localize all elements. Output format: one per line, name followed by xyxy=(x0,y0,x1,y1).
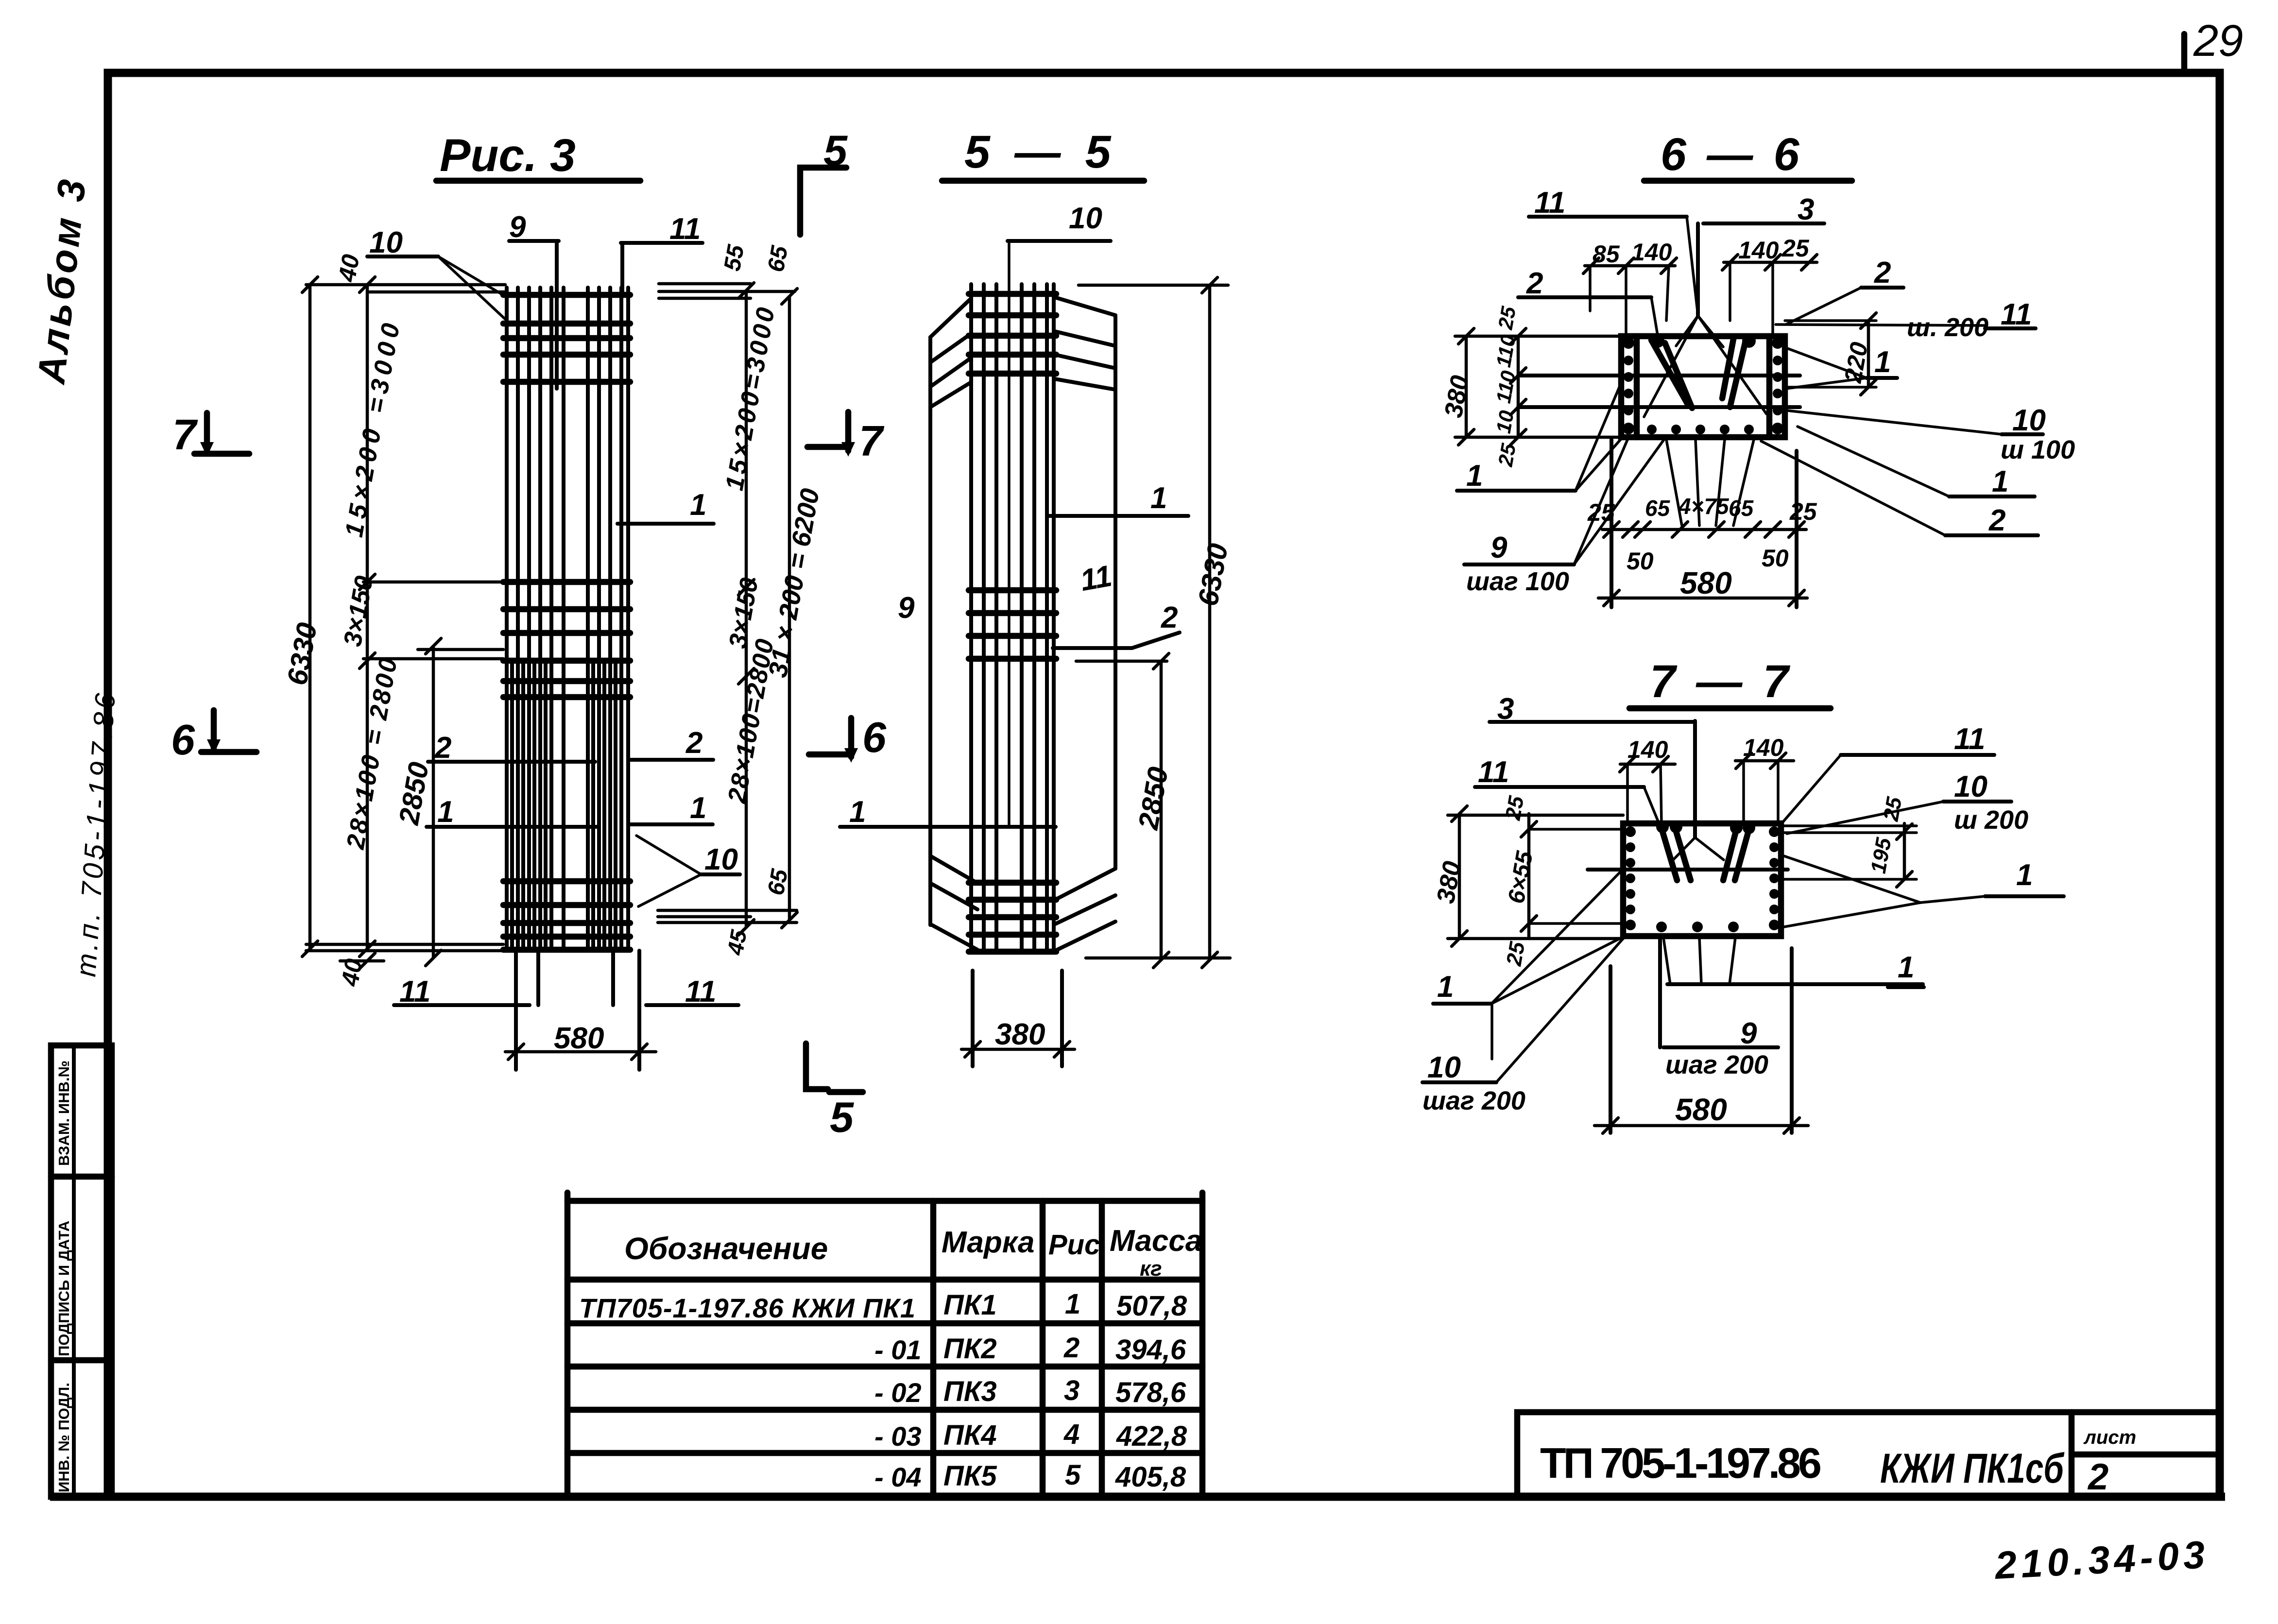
svg-text:ТП705-1-197.86 КЖИ ПК1: ТП705-1-197.86 КЖИ ПК1 xyxy=(579,1293,915,1323)
bent bar pairs xyxy=(1661,825,1750,880)
svg-text:9: 9 xyxy=(898,591,915,625)
svg-text:6 — 6: 6 — 6 xyxy=(1661,129,1803,180)
svg-text:ВЗАМ. ИНВ.№: ВЗАМ. ИНВ.№ xyxy=(55,1060,72,1166)
svg-text:10: 10 xyxy=(1427,1051,1461,1084)
left dim line 15x200/3x150/28x100 xyxy=(366,285,369,949)
cage ties top group xyxy=(969,294,1056,374)
svg-text:25: 25 xyxy=(1502,940,1529,968)
right dim 2850 xyxy=(1076,660,1167,663)
svg-text:7 — 7: 7 — 7 xyxy=(1650,656,1792,707)
rebar dots bottom row xyxy=(1647,425,1754,434)
central strand 10 leader through cage xyxy=(1008,241,1011,826)
svg-text:1: 1 xyxy=(690,791,706,825)
svg-text:шаг 200: шаг 200 xyxy=(1665,1050,1768,1079)
cage vertical bars xyxy=(971,284,1054,952)
svg-text:ИНВ. № ПОДЛ.: ИНВ. № ПОДЛ. xyxy=(55,1383,72,1492)
svg-text:405,8: 405,8 xyxy=(1115,1461,1186,1493)
svg-text:Рис. 3: Рис. 3 xyxy=(440,130,576,181)
svg-text:1: 1 xyxy=(2016,858,2033,892)
svg-text:2: 2 xyxy=(1988,504,2005,537)
svg-text:1: 1 xyxy=(1065,1288,1080,1320)
rebar dots bottom row xyxy=(1656,922,1739,932)
splayed strands top-right xyxy=(1055,297,1115,869)
svg-text:ПК2: ПК2 xyxy=(943,1333,997,1365)
svg-text:1: 1 xyxy=(1437,970,1454,1004)
svg-text:4: 4 xyxy=(1063,1419,1079,1450)
bottom dim row 25,65,4x75,65,25 xyxy=(1610,440,1613,607)
svg-text:10: 10 xyxy=(369,226,403,259)
cage lap-splice bars in lower zone xyxy=(512,661,616,950)
svg-text:580: 580 xyxy=(1680,565,1732,600)
svg-text:40: 40 xyxy=(333,252,365,284)
svg-text:ПК5: ПК5 xyxy=(943,1460,997,1492)
left stirrup rail xyxy=(1634,336,1640,437)
corner blobs xyxy=(1651,334,1756,348)
svg-text:2: 2 xyxy=(2087,1456,2108,1498)
svg-text:1: 1 xyxy=(1898,951,1914,984)
svg-text:578,6: 578,6 xyxy=(1115,1377,1186,1408)
svg-text:140: 140 xyxy=(1631,239,1672,266)
rebar dots left xyxy=(1623,337,1634,434)
svg-text:2: 2 xyxy=(1526,267,1543,300)
svg-text:2: 2 xyxy=(1161,601,1178,634)
svg-text:380: 380 xyxy=(995,1018,1045,1051)
svg-text:11: 11 xyxy=(669,212,701,246)
right dim line 31x200=6200 xyxy=(788,296,791,920)
svg-text:1: 1 xyxy=(690,488,706,522)
section marker 5 bottom xyxy=(806,1043,828,1089)
section body rect xyxy=(1621,336,1785,437)
below-section leaders to label 1 xyxy=(1663,938,1735,984)
leader 3 vertical and peak xyxy=(1693,721,1697,838)
bent bars W xyxy=(1651,339,1745,408)
page number 29 xyxy=(2184,16,2243,74)
dim 220 right xyxy=(1867,321,1870,387)
svg-text:10: 10 xyxy=(704,843,738,876)
svg-text:45: 45 xyxy=(722,927,752,957)
svg-text:85: 85 xyxy=(1593,240,1620,268)
svg-text:29: 29 xyxy=(2193,16,2243,66)
svg-text:1: 1 xyxy=(1874,345,1891,379)
svg-text:10: 10 xyxy=(2012,404,2046,437)
left dim line 2850 xyxy=(432,646,435,958)
bar-top blobs xyxy=(1656,821,1755,834)
svg-text:7: 7 xyxy=(859,417,885,465)
svg-text:10: 10 xyxy=(1954,770,1987,803)
svg-text:9: 9 xyxy=(509,210,526,244)
svg-text:шаг 200: шаг 200 xyxy=(1422,1086,1525,1115)
cage ties middle group xyxy=(503,582,630,697)
extension lines cage top-left xyxy=(306,283,505,287)
svg-text:Рис: Рис xyxy=(1048,1229,1100,1261)
svg-text:9: 9 xyxy=(1490,531,1507,564)
rebar dots left xyxy=(1625,826,1636,930)
bottom dim 580 xyxy=(1598,597,1807,600)
svg-text:25: 25 xyxy=(1501,794,1528,822)
extension lines at lap boundary xyxy=(363,657,503,661)
svg-text:ПК3: ПК3 xyxy=(943,1376,997,1407)
svg-text:- 04: - 04 xyxy=(874,1462,922,1492)
rebar dots right xyxy=(1772,337,1783,434)
svg-text:11: 11 xyxy=(2001,298,2032,331)
svg-text:65: 65 xyxy=(763,867,793,897)
svg-text:ПОДПИСЬ И ДАТА: ПОДПИСЬ И ДАТА xyxy=(55,1221,72,1356)
svg-text:Обозначение: Обозначение xyxy=(624,1231,828,1266)
tie across xyxy=(1588,868,1788,872)
svg-text:2: 2 xyxy=(1063,1332,1079,1364)
svg-text:лист: лист xyxy=(2083,1427,2136,1448)
svg-text:1: 1 xyxy=(1992,465,2008,498)
bottom shared extension xyxy=(1086,957,1230,960)
svg-text:6: 6 xyxy=(171,716,195,764)
svg-text:шаг 100: шаг 100 xyxy=(1466,567,1569,596)
svg-text:11: 11 xyxy=(1478,755,1509,789)
cage ties bottom group xyxy=(503,881,630,950)
svg-text:4×75: 4×75 xyxy=(1678,494,1730,519)
right extension lines top (55/65) xyxy=(659,282,751,286)
svg-text:65: 65 xyxy=(1645,496,1671,521)
cage vertical bars xyxy=(507,288,628,950)
right dim line 15x200/3x150/28x100 xyxy=(745,291,748,927)
svg-text:580: 580 xyxy=(1675,1092,1727,1127)
svg-text:- 03: - 03 xyxy=(874,1421,922,1452)
svg-text:1: 1 xyxy=(1466,459,1483,493)
svg-text:25: 25 xyxy=(1879,795,1906,823)
svg-text:5 — 5: 5 — 5 xyxy=(964,126,1116,178)
svg-text:10: 10 xyxy=(1492,409,1518,435)
right dim 6330 xyxy=(1079,284,1228,287)
bottom-left stamp strip xyxy=(51,1045,112,1497)
bottom dim 380 xyxy=(971,971,975,1066)
svg-text:ш 200: ш 200 xyxy=(1954,805,2028,835)
left dim col 25/6x55/25 xyxy=(1527,814,1531,939)
dim 380 left xyxy=(1465,336,1468,437)
splayed strands bottom-left xyxy=(930,856,977,950)
svg-text:11: 11 xyxy=(1534,186,1565,220)
right small dims 25 and 195 xyxy=(1781,824,1917,827)
cage ties bottom group xyxy=(969,883,1056,952)
svg-text:1: 1 xyxy=(1150,481,1167,515)
svg-text:25: 25 xyxy=(1587,499,1615,526)
ties across section xyxy=(1518,374,1800,377)
bottom dim 580 xyxy=(514,1005,518,1070)
cage ties middle group xyxy=(969,590,1056,659)
svg-text:2: 2 xyxy=(1874,256,1891,290)
leader peak from labels 11/3 xyxy=(1696,223,1700,316)
svg-text:10: 10 xyxy=(1069,202,1102,235)
svg-text:50: 50 xyxy=(1627,547,1654,575)
svg-text:1: 1 xyxy=(849,795,866,829)
rebar dots right xyxy=(1769,826,1780,930)
svg-text:- 02: - 02 xyxy=(874,1377,922,1408)
svg-text:1: 1 xyxy=(437,795,454,829)
right stirrup rail xyxy=(1766,336,1773,437)
svg-text:3: 3 xyxy=(1064,1375,1079,1406)
svg-text:25: 25 xyxy=(1493,442,1520,469)
svg-text:394,6: 394,6 xyxy=(1115,1334,1186,1366)
svg-text:5: 5 xyxy=(830,1093,854,1141)
table grid xyxy=(567,1193,1202,1495)
svg-text:КЖИ ПК1сб: КЖИ ПК1сб xyxy=(1880,1445,2065,1492)
svg-text:140: 140 xyxy=(1738,237,1779,264)
svg-text:5: 5 xyxy=(1065,1459,1081,1491)
svg-text:65: 65 xyxy=(1729,496,1754,521)
svg-text:ТП 705-1-197.86: ТП 705-1-197.86 xyxy=(1540,1439,1822,1487)
svg-text:6: 6 xyxy=(862,713,887,761)
svg-text:55: 55 xyxy=(719,242,750,273)
svg-text:422,8: 422,8 xyxy=(1116,1420,1187,1452)
svg-text:11: 11 xyxy=(1078,559,1114,598)
svg-text:25: 25 xyxy=(1781,235,1810,262)
svg-text:ш. 200: ш. 200 xyxy=(1907,313,1988,342)
svg-text:9: 9 xyxy=(1740,1017,1757,1050)
section body rect xyxy=(1623,823,1781,936)
left dim line 6330 xyxy=(308,285,312,949)
svg-text:11: 11 xyxy=(1954,722,1985,756)
extension lines at 3000 boundary xyxy=(363,581,503,584)
svg-text:3: 3 xyxy=(1798,193,1814,226)
right extension lines bottom xyxy=(658,909,797,912)
svg-text:Марка: Марка xyxy=(942,1226,1034,1259)
svg-text:507,8: 507,8 xyxy=(1116,1290,1187,1322)
svg-text:ш 100: ш 100 xyxy=(2001,435,2075,464)
svg-text:- 01: - 01 xyxy=(874,1334,922,1365)
svg-text:65: 65 xyxy=(763,243,793,274)
svg-text:ПК4: ПК4 xyxy=(943,1419,997,1451)
left dim 380 xyxy=(1458,814,1461,939)
splayed strands bottom-right xyxy=(1055,869,1115,951)
svg-text:2: 2 xyxy=(434,731,451,765)
svg-text:50: 50 xyxy=(1762,545,1789,572)
cage ties top group xyxy=(503,295,630,382)
svg-text:580: 580 xyxy=(554,1022,604,1055)
svg-text:25: 25 xyxy=(1493,305,1520,332)
svg-text:Масса: Масса xyxy=(1110,1224,1202,1258)
splayed strands top-left xyxy=(930,299,970,925)
extension lines cage bottom-left xyxy=(306,943,503,946)
svg-text:кг: кг xyxy=(1140,1257,1162,1281)
bottom dim 580 xyxy=(1609,966,1612,1133)
inner dim col 25/110/110/25 xyxy=(1517,336,1520,437)
svg-text:ПК1: ПК1 xyxy=(943,1289,997,1321)
svg-text:2: 2 xyxy=(685,726,702,760)
svg-text:25: 25 xyxy=(1789,498,1817,525)
below-section leader lines xyxy=(1666,440,1754,526)
